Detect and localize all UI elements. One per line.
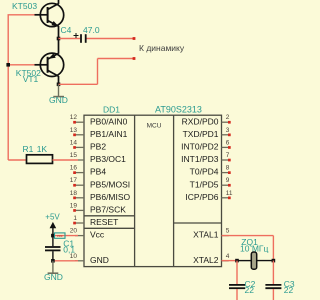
svg-text:6: 6: [226, 139, 230, 146]
svg-text:TXD/PD1: TXD/PD1: [183, 129, 219, 139]
pin 19 PB7/SCK: [70, 202, 126, 214]
svg-text:PB1/AIN1: PB1/AIN1: [90, 129, 128, 139]
wire: XTAL1 to crystal right node: [222, 235, 274, 237]
svg-text:13: 13: [70, 127, 78, 134]
pin 13 PB1/AIN1: [70, 127, 128, 139]
terminal square to speaker (top): [133, 37, 136, 40]
crystal ZQ1: [237, 260, 251, 262]
svg-text:11: 11: [226, 190, 233, 197]
svg-text:Vcc: Vcc: [90, 230, 105, 240]
svg-text:XTAL1: XTAL1: [193, 230, 219, 240]
pin 5 XTAL1: [193, 228, 230, 240]
svg-text:5: 5: [226, 228, 230, 235]
svg-text:14: 14: [70, 139, 78, 146]
svg-text:XTAL2: XTAL2: [193, 255, 219, 265]
svg-text:1K: 1K: [37, 144, 48, 154]
svg-text:16: 16: [70, 165, 78, 172]
svg-text:7: 7: [226, 152, 230, 159]
svg-text:KT503: KT503: [12, 1, 37, 11]
node: +5V junction: [51, 234, 55, 238]
transistor VT1 KT502 (PNP): [35, 39, 64, 85]
wire: KT503 base horizontal: [8, 14, 37, 16]
svg-text:PB5/MOSI: PB5/MOSI: [90, 179, 130, 189]
pin 1 RESET: [73, 215, 118, 227]
svg-text:18: 18: [70, 190, 78, 197]
svg-text:PB3/OC1: PB3/OC1: [90, 154, 126, 164]
pin 3 TXD/PD1: [183, 127, 231, 139]
capacitor C1: [52, 236, 54, 247]
pin 7 INT1/PD3: [181, 152, 231, 164]
svg-text:3: 3: [226, 127, 230, 134]
VT1 emitter arrow (PNP, points to base): [49, 53, 56, 58]
ground symbol (transistor): [58, 84, 60, 96]
svg-text:INT1/PD3: INT1/PD3: [181, 154, 219, 164]
svg-text:PB0/AIN0: PB0/AIN0: [90, 116, 128, 126]
svg-text:INT0/PD2: INT0/PD2: [181, 142, 219, 152]
pin 20 Vcc: [70, 228, 105, 240]
svg-text:GND: GND: [90, 255, 109, 265]
svg-text:MCU: MCU: [147, 123, 162, 130]
KT503 emitter arrow: [51, 21, 58, 26]
svg-text:19: 19: [70, 202, 78, 209]
capacitor C3: [272, 261, 274, 285]
svg-text:47.0: 47.0: [83, 25, 100, 35]
svg-text:T0/PD4: T0/PD4: [190, 167, 219, 177]
wire: XTAL2 to crystal left node: [222, 260, 238, 262]
svg-text:PB6/MISO: PB6/MISO: [90, 192, 131, 202]
C4 plus sign: [74, 33, 79, 38]
node: crystal left junction: [235, 259, 239, 263]
node: junction left rail / KT502 base: [6, 63, 10, 67]
pin 14 PB2: [70, 139, 107, 151]
svg-text:PB7/SCK: PB7/SCK: [90, 205, 126, 215]
pin 6 INT0/PD2: [181, 139, 231, 151]
svg-text:C4: C4: [61, 25, 72, 35]
transistor KT503 (NPN, top): [35, 0, 64, 39]
capacitor C4 plates: [80, 34, 82, 43]
svg-text:+5V: +5V: [45, 212, 60, 221]
svg-text:AT90S2313: AT90S2313: [155, 104, 202, 114]
svg-text:20: 20: [70, 228, 78, 235]
pin 8 T0/PD4: [190, 165, 231, 177]
pin 10 GND: [70, 253, 109, 265]
resistor R1: [8, 159, 26, 161]
svg-text:RESET: RESET: [90, 217, 118, 227]
capacitor C2: [236, 261, 238, 285]
pin 11 ICP/PD6: [185, 190, 233, 202]
net label vcc: [55, 233, 66, 238]
pin 12 PB0/AIN0: [70, 114, 128, 126]
pin 16 PB4: [70, 165, 107, 177]
wire: +5V rail to Vcc pin: [53, 235, 78, 237]
terminal square to speaker (bottom): [133, 57, 136, 60]
svg-text:17: 17: [70, 177, 78, 184]
node: junction emitters / C4: [57, 37, 61, 41]
pin 18 PB6/MISO: [70, 190, 131, 202]
pin 17 PB5/MOSI: [70, 177, 130, 189]
svg-text:DD1: DD1: [103, 104, 120, 114]
pin 15 PB3/OC1: [70, 152, 126, 164]
svg-text:PB2: PB2: [90, 142, 106, 152]
pin 9 T1/PD5: [190, 177, 231, 189]
node: GND junction: [51, 259, 55, 263]
svg-text:10 МГц: 10 МГц: [240, 244, 268, 254]
svg-text:22: 22: [245, 285, 255, 295]
svg-text:ICP/PD6: ICP/PD6: [185, 192, 218, 202]
wire: left rail vertical: [7, 15, 9, 160]
svg-text:RXD/PD0: RXD/PD0: [182, 116, 219, 126]
svg-text:9: 9: [226, 177, 230, 184]
svg-text:1: 1: [73, 215, 77, 222]
svg-text:2: 2: [226, 114, 230, 121]
svg-text:15: 15: [70, 152, 78, 159]
pin 4 XTAL2: [193, 253, 230, 265]
svg-text:22: 22: [284, 285, 294, 295]
svg-text:GND: GND: [49, 95, 68, 105]
capacitor C4 wires: [59, 38, 81, 40]
svg-text:GND: GND: [44, 272, 63, 282]
power +5V symbol: [52, 225, 54, 236]
svg-text:PB4: PB4: [90, 167, 106, 177]
svg-text:VT1: VT1: [23, 74, 39, 84]
pin 2 RXD/PD0: [182, 114, 231, 126]
wire: emitter junction to speaker (bottom): [57, 83, 61, 87]
svg-text:T1/PD5: T1/PD5: [190, 179, 219, 189]
wire: KT502 base horizontal: [8, 64, 36, 66]
svg-text:12: 12: [70, 114, 78, 121]
ground symbol (bottom left): [52, 261, 54, 273]
svg-text:0,1: 0,1: [63, 245, 75, 255]
svg-text:К динамику: К динамику: [139, 43, 185, 53]
node: crystal right junction: [272, 259, 276, 263]
svg-text:8: 8: [226, 165, 230, 172]
svg-text:vcc: vcc: [57, 234, 63, 238]
svg-text:R1: R1: [23, 144, 34, 154]
IC DD1 box: [84, 115, 222, 266]
wire: GND row to IC pin 10: [53, 260, 78, 262]
svg-text:4: 4: [226, 253, 230, 260]
